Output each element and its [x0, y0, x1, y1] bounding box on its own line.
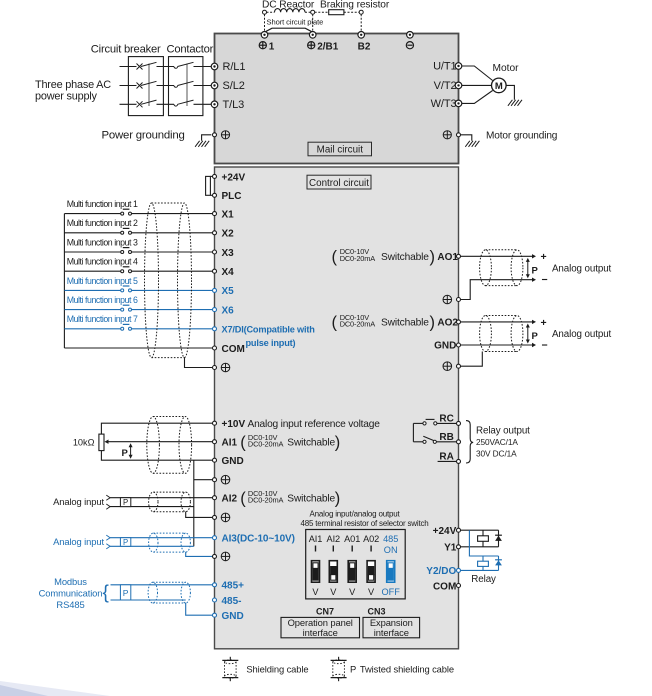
wire GND - [461, 344, 533, 346]
svg-text:{: { [103, 583, 110, 604]
svg-text:Power grounding: Power grounding [102, 129, 185, 141]
terminal +10V [213, 421, 217, 425]
shield to earth wire [185, 358, 213, 368]
contactor pole 2 [174, 86, 178, 88]
dashed drop wires to terminals [264, 14, 266, 31]
svg-text:X5: X5 [222, 286, 235, 297]
motor grounding wire [461, 135, 472, 141]
svg-text:Y2/DO: Y2/DO [426, 566, 456, 577]
svg-text:+24V: +24V [433, 526, 457, 537]
shield AO2 to earth [461, 352, 483, 367]
wire Y2/DO rail [461, 569, 499, 571]
wire RA [438, 460, 457, 462]
breaker pole 2 [137, 83, 143, 89]
wire switch to X4 [132, 270, 213, 272]
svg-text:OFF: OFF [382, 587, 401, 597]
svg-text:): ) [430, 248, 436, 266]
svg-text:X4: X4 [222, 267, 235, 278]
svg-text:AO2: AO2 [437, 318, 458, 329]
wire W/T3 to motor [462, 91, 493, 104]
wire contactor to terminal 1 [194, 66, 212, 68]
Control circuit label box [307, 175, 371, 189]
svg-text:Twisted shielding cable: Twisted shielding cable [360, 664, 454, 675]
svg-text:V: V [368, 587, 375, 597]
wire contactor to terminal 2 [194, 85, 212, 87]
svg-text:U/T1: U/T1 [433, 61, 456, 73]
terminal S/L2 [211, 82, 218, 89]
motor ground symbol [508, 100, 513, 106]
wire breaker to contactor 1 [157, 66, 175, 68]
terminal V/T2 [455, 82, 462, 89]
motor ground wire [506, 85, 514, 99]
DIP switch AI2 [329, 561, 337, 583]
terminal +1 [261, 32, 268, 39]
svg-text:485+: 485+ [222, 581, 245, 592]
svg-text:GND: GND [222, 611, 244, 622]
terminal PLC [213, 193, 217, 197]
svg-text:Switchable: Switchable [381, 252, 429, 263]
svg-text:A02: A02 [363, 534, 379, 544]
svg-text:Analog output: Analog output [552, 263, 612, 274]
wire COM row [64, 347, 212, 349]
svg-text:V: V [330, 587, 337, 597]
terminal GND [213, 458, 217, 462]
shielding cable AO1 [480, 250, 492, 286]
wire rail to switch 7 [64, 328, 120, 330]
svg-text:Relay: Relay [471, 574, 496, 585]
switch S6 [121, 308, 124, 311]
control circuit box [215, 167, 459, 649]
svg-text:Multi function input 5: Multi function input 5 [67, 276, 138, 286]
terminal earth below COM [213, 366, 217, 370]
svg-text:ON: ON [384, 545, 398, 555]
svg-text:RC: RC [439, 413, 453, 424]
terminal Y2/DO [457, 568, 461, 572]
wire rail to switch 5 [64, 289, 120, 291]
svg-text:Analog input/analog output: Analog input/analog output [310, 509, 401, 518]
terminal 485+ [213, 583, 217, 587]
legend shielding cable symbol [229, 657, 231, 661]
wire rail to switch 6 [64, 309, 120, 311]
wire Y1 rail [461, 546, 499, 548]
relay common link [412, 423, 414, 441]
terminal COM out [457, 584, 461, 588]
branch to earth terminal [194, 479, 213, 481]
svg-text:1: 1 [269, 41, 275, 52]
485 shield to GND [186, 603, 213, 615]
twisted pair P AI1 [130, 446, 132, 457]
wire switch to X1 [132, 213, 213, 215]
shielding cable AO2 [480, 316, 492, 352]
Expansion interface box [363, 617, 420, 637]
I mark A02 [370, 546, 372, 552]
P box 485 [120, 585, 130, 600]
svg-text:Y1: Y1 [444, 543, 457, 554]
svg-text:AI3(DC-10~10V): AI3(DC-10~10V) [222, 534, 295, 545]
svg-text:P: P [350, 664, 356, 675]
svg-text:10kΩ: 10kΩ [73, 437, 95, 447]
terminal X4 [213, 269, 217, 273]
svg-text:Switchable: Switchable [287, 437, 335, 448]
breaker linkage [148, 64, 150, 107]
DIP switch 485 [387, 561, 395, 583]
svg-text:RS485: RS485 [56, 599, 84, 610]
svg-text:250VAC/1A: 250VAC/1A [476, 437, 518, 447]
svg-text:Analog input reference voltage: Analog input reference voltage [248, 419, 381, 430]
DIP switch AI1 [312, 561, 320, 583]
wire U/T1 to motor [462, 66, 493, 81]
svg-text:−: − [542, 340, 548, 352]
Mail circuit label box [308, 142, 372, 156]
svg-text:2/B1: 2/B1 [317, 41, 339, 52]
wire +24V rail [461, 529, 499, 531]
AI2 pair wires [106, 495, 110, 498]
relay coil K1 [482, 530, 484, 536]
shielding cable AI2 [149, 492, 158, 512]
switch S5 [121, 289, 124, 292]
svg-text:X3: X3 [222, 248, 235, 259]
terminal earth below GND [213, 478, 217, 482]
power ground symbol [195, 141, 200, 147]
power grounding terminal [213, 133, 217, 137]
terminal RB [457, 440, 461, 444]
svg-text:Multi function input 2: Multi function input 2 [67, 218, 138, 228]
485 pair wires [111, 584, 213, 586]
switch S1 [121, 212, 124, 215]
svg-text:Analog output: Analog output [552, 329, 612, 340]
svg-text:485-: 485- [222, 596, 242, 607]
svg-text:Braking resistor: Braking resistor [320, 0, 390, 11]
svg-text:S/L2: S/L2 [223, 80, 245, 92]
svg-text:V: V [349, 587, 356, 597]
terminal RC [457, 421, 461, 425]
circuit breaker QF box [128, 57, 163, 116]
svg-text:Circuit breaker: Circuit breaker [91, 44, 161, 56]
svg-text:GND: GND [222, 456, 244, 467]
terminal earth below AI3 [213, 554, 217, 558]
svg-text:(: ( [240, 434, 246, 452]
node above terminal 1 [263, 10, 267, 14]
earth drop bus [193, 460, 195, 546]
svg-text:interface: interface [303, 627, 338, 638]
terminal earth below AO1 [443, 295, 452, 304]
svg-text:Motor grounding: Motor grounding [486, 131, 557, 142]
svg-text:AI1: AI1 [309, 534, 323, 544]
wire V/T2 to motor [462, 84, 492, 86]
svg-text:): ) [430, 314, 436, 332]
svg-text:DC0-20mA: DC0-20mA [340, 254, 376, 263]
wire rail to switch 1 [64, 213, 120, 215]
svg-text:(: ( [240, 490, 246, 508]
svg-text:T/L3: T/L3 [223, 99, 245, 111]
svg-text:DC0-20mA: DC0-20mA [248, 496, 284, 505]
svg-text:P: P [123, 498, 128, 507]
svg-text:B2: B2 [358, 41, 371, 52]
terminal X2 [213, 231, 217, 235]
svg-text:X2: X2 [222, 229, 235, 240]
terminal RA [457, 459, 461, 463]
DC reactor inductor L [267, 11, 275, 13]
motor grounding earth symbol [443, 131, 451, 139]
svg-text:Switchable: Switchable [287, 493, 335, 504]
terminal GND 485 [213, 613, 217, 617]
wire contactor to terminal 3 [194, 103, 212, 105]
svg-text:Three phase AC: Three phase AC [35, 79, 111, 91]
potentiometer 10k [99, 434, 104, 451]
short circuit plate bridge wire [265, 28, 313, 32]
terminal X3 [213, 250, 217, 254]
svg-text:Control circuit: Control circuit [309, 178, 369, 189]
svg-text:V/T2: V/T2 [434, 80, 457, 92]
contactor linkage [186, 64, 188, 107]
svg-text:Multi function input 4: Multi function input 4 [67, 257, 138, 267]
terminal X6 [213, 308, 217, 312]
terminal U/T1 [455, 63, 462, 70]
terminal X7 [213, 327, 217, 331]
P box AI3 [120, 538, 130, 547]
svg-text:COM: COM [433, 581, 456, 592]
P box AI2 [120, 498, 130, 507]
svg-text:RA: RA [439, 451, 453, 462]
contactor pole 3 [174, 104, 178, 106]
decorative corner watermark [0, 681, 110, 696]
svg-text:X6: X6 [222, 305, 235, 316]
pot wiper to AI1 [107, 441, 213, 443]
svg-text:Switchable: Switchable [381, 318, 429, 329]
breaker pole 1 [137, 64, 143, 70]
power earth symbol [221, 131, 229, 139]
breaker pole 3 [137, 101, 143, 107]
wire switch to X6 [132, 309, 213, 311]
DIP switch A01 [348, 561, 356, 583]
svg-text:P: P [122, 448, 129, 459]
terminal GND analog [457, 343, 461, 347]
svg-text:Short circuit plate: Short circuit plate [267, 18, 324, 27]
svg-text:Communication: Communication [39, 587, 103, 598]
svg-text:(: ( [332, 248, 338, 266]
svg-text:+10V: +10V [222, 419, 246, 430]
svg-text:Shielding cable: Shielding cable [246, 664, 308, 675]
svg-text:Analog input: Analog input [53, 496, 104, 507]
svg-text:P: P [123, 588, 129, 598]
wire switch to X2 [132, 232, 213, 234]
svg-text:DC0-20mA: DC0-20mA [340, 320, 376, 329]
phase wire 3 into breaker [120, 103, 137, 105]
svg-text:COM: COM [222, 344, 245, 355]
flyback diode D1 [498, 530, 500, 547]
svg-text:Multi function input 7: Multi function input 7 [67, 314, 138, 324]
flyback diode D2 [498, 556, 500, 570]
terminal +24V out [457, 528, 461, 532]
svg-text:Mail circuit: Mail circuit [317, 145, 364, 156]
switch S7 [121, 327, 124, 330]
switch S3 [121, 251, 124, 254]
wire rail to switch 2 [64, 232, 120, 234]
svg-text:485: 485 [383, 534, 398, 544]
svg-text:interface: interface [374, 627, 409, 638]
svg-text:): ) [335, 434, 341, 452]
svg-text:P: P [532, 331, 539, 342]
svg-text:Multi function input 6: Multi function input 6 [67, 295, 138, 305]
shielding cable AI1 [147, 417, 160, 474]
label (-) [406, 42, 413, 49]
shielding cable 485 [148, 582, 157, 603]
motor grounding terminal [457, 133, 461, 137]
switch S4 [121, 270, 124, 273]
svg-text:Relay output: Relay output [476, 425, 530, 436]
terminal earth below AI2 [213, 515, 217, 519]
terminal AO2 [457, 320, 461, 324]
Operation panel interface box [281, 617, 360, 637]
braking resistor R [315, 11, 329, 13]
svg-text:Contactor: Contactor [167, 44, 214, 56]
I mark AI2 [332, 546, 334, 552]
svg-text:(: ( [332, 314, 338, 332]
svg-text:M: M [495, 81, 503, 92]
svg-text:485 terminal resistor of selec: 485 terminal resistor of selector switch [300, 519, 428, 528]
svg-text:Multi function input 3: Multi function input 3 [67, 237, 138, 247]
relay output brace [466, 421, 473, 463]
power ground wire [202, 135, 212, 141]
wire pot to GND [101, 451, 212, 461]
wire switch to X3 [132, 251, 213, 253]
svg-text:Multi function input 1: Multi function input 1 [67, 199, 138, 209]
svg-text:P: P [532, 266, 539, 277]
AI3 shield to earth [186, 552, 213, 556]
terminal X5 [213, 288, 217, 292]
svg-text:CN7: CN7 [316, 607, 334, 617]
node above terminal 2/B1 [311, 10, 315, 14]
svg-text:DC0-20mA: DC0-20mA [248, 440, 284, 449]
svg-text:power supply: power supply [35, 91, 98, 103]
terminal AI3 [213, 536, 217, 540]
relay contact RB (NO) [436, 441, 456, 443]
svg-text:30V DC/1A: 30V DC/1A [476, 448, 517, 458]
svg-text:A01: A01 [344, 534, 360, 544]
terminal +2/B1 [309, 32, 316, 39]
svg-text:GND: GND [434, 341, 456, 352]
wire breaker to contactor 2 [157, 85, 175, 87]
svg-text:+: + [541, 317, 547, 329]
wire switch to X7 [132, 328, 213, 330]
wire switch to X5 [132, 289, 213, 291]
phase wire 1 into breaker [120, 66, 137, 68]
svg-text:Motor: Motor [493, 63, 520, 74]
svg-text:CN3: CN3 [367, 607, 385, 617]
wire rail to switch 3 [64, 251, 120, 253]
svg-text:AI2: AI2 [222, 494, 238, 505]
svg-text:Modbus: Modbus [54, 576, 87, 587]
svg-text:V: V [312, 587, 319, 597]
terminal T/L3 [211, 101, 218, 108]
AI2 shield to earth [186, 512, 213, 518]
twisted pair P AO2 [527, 326, 529, 341]
I mark AI1 [315, 546, 317, 552]
svg-text:): ) [335, 490, 341, 508]
svg-text:−: − [542, 274, 548, 286]
svg-text:P: P [123, 538, 128, 547]
terminal COM [213, 346, 217, 350]
terminal X1 [213, 212, 217, 216]
svg-text:+24V: +24V [222, 172, 246, 183]
wire AO1 + [461, 255, 533, 257]
svg-text:AO1: AO1 [437, 252, 458, 263]
switch S2 [121, 231, 124, 234]
label (+)1 [259, 42, 266, 49]
multifunction common rail [63, 214, 65, 348]
wire +10V to pot [101, 423, 212, 434]
svg-text:pulse input): pulse input) [246, 338, 296, 348]
terminal earth below GND [443, 362, 452, 371]
terminal AI2 [213, 496, 217, 500]
wire AO2 + [461, 321, 533, 323]
shielding cable AI3 [149, 533, 158, 552]
svg-text:PLC: PLC [222, 191, 242, 202]
motor grounding ground symbol [465, 141, 470, 147]
motor M [492, 78, 507, 93]
terminal W/T3 [455, 100, 462, 107]
wire +24V to Y2 branch [469, 530, 498, 556]
contactor pole 1 [174, 67, 178, 69]
shielding cable over X1-COM [145, 203, 159, 358]
terminal R/L1 [211, 63, 218, 70]
svg-text:AI1: AI1 [222, 438, 238, 449]
relay coil K2 [482, 556, 484, 561]
node above terminal B2 [359, 10, 363, 14]
DIP switch A02 [367, 561, 375, 583]
phase wire 2 into breaker [120, 85, 137, 87]
DIP switch box [306, 530, 406, 599]
wire breaker to contactor 3 [157, 103, 175, 105]
legend twisted shielding cable symbol [338, 657, 340, 661]
terminal Y1 [457, 545, 461, 549]
svg-text:AI2: AI2 [327, 534, 341, 544]
terminal +24V [213, 174, 217, 178]
terminal minus [407, 32, 414, 39]
terminal AI1 [213, 440, 217, 444]
svg-text:RB: RB [439, 432, 453, 443]
contactor KM box [169, 57, 203, 116]
terminal 485- [213, 598, 217, 602]
svg-text:R/L1: R/L1 [223, 61, 246, 73]
I mark A01 [351, 546, 353, 552]
wire AO1 - to earth [461, 280, 533, 300]
terminal B2 [358, 32, 365, 39]
label (+)2/B1 [308, 42, 315, 49]
svg-text:X7/DI(Compatible with: X7/DI(Compatible with [222, 325, 316, 335]
jumper +24V to PLC [210, 175, 212, 177]
AI3 pair wires [106, 535, 110, 538]
svg-text:+: + [541, 251, 547, 263]
relay contact RC (NC) [437, 422, 457, 424]
terminal AO1 [457, 254, 461, 258]
wire rail to switch 4 [64, 270, 120, 272]
svg-text:X1: X1 [222, 209, 235, 220]
svg-text:Analog input: Analog input [53, 536, 104, 547]
main circuit box [215, 34, 459, 164]
twisted pair P AO1 [527, 260, 529, 275]
svg-text:W/T3: W/T3 [431, 98, 457, 110]
